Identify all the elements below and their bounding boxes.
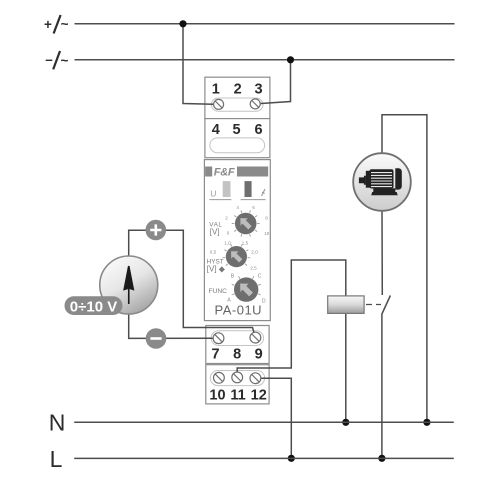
svg-text:0÷10 V: 0÷10 V bbox=[70, 298, 117, 315]
junction dot switch wire on L line bbox=[378, 455, 385, 462]
svg-text:6: 6 bbox=[254, 122, 262, 138]
svg-text:0: 0 bbox=[227, 231, 230, 236]
junction dot on -/~ line bbox=[287, 56, 294, 63]
screw terminal 7 bbox=[213, 333, 224, 344]
wire switch to L bbox=[381, 314, 383, 459]
wire from -/~ to terminal 3 bbox=[255, 60, 290, 104]
module terminal box 4-6 bbox=[205, 119, 270, 158]
svg-text:2: 2 bbox=[234, 82, 242, 98]
svg-text:2,0: 2,0 bbox=[251, 250, 258, 255]
screw terminal 1 bbox=[214, 99, 224, 109]
dashed link coil to contact bbox=[366, 304, 381, 306]
knob VAL bbox=[209, 205, 269, 237]
motor M circle bbox=[353, 153, 411, 211]
svg-text:[V]: [V] bbox=[210, 228, 220, 237]
svg-text:4: 4 bbox=[236, 205, 239, 210]
label 0÷10 V badge bbox=[65, 296, 123, 315]
svg-text:1,0: 1,0 bbox=[224, 241, 231, 246]
wire sensor minus to terminal 7 bbox=[129, 314, 219, 338]
module main body bbox=[204, 160, 270, 321]
screw terminal 10 bbox=[214, 372, 225, 383]
svg-text:~: ~ bbox=[61, 17, 69, 32]
svg-text:F&F: F&F bbox=[214, 167, 235, 179]
motor icon bbox=[359, 168, 402, 195]
junction dot terminal 12 wire on L line bbox=[288, 455, 295, 462]
junction dot motor wire on N line bbox=[423, 419, 430, 426]
svg-text:4: 4 bbox=[212, 122, 220, 138]
wire N line bbox=[74, 421, 454, 423]
svg-text:~: ~ bbox=[61, 53, 69, 68]
knob FUNC bbox=[209, 274, 266, 305]
svg-text:U: U bbox=[210, 188, 216, 198]
svg-text:5: 5 bbox=[233, 122, 241, 138]
knob HYST bbox=[207, 241, 259, 274]
svg-text:–: – bbox=[45, 52, 53, 67]
svg-text:C: C bbox=[258, 274, 262, 280]
node -/~ label bbox=[45, 51, 68, 69]
screw terminal 11 bbox=[232, 372, 243, 383]
svg-text:9: 9 bbox=[255, 346, 263, 362]
wire motor bottom to switch bbox=[381, 211, 383, 295]
switch contact blade bbox=[382, 296, 391, 315]
screw terminal 12 bbox=[250, 373, 261, 384]
node +/~ label bbox=[44, 15, 69, 34]
wire motor top loop to N bbox=[382, 115, 427, 423]
wire L line bbox=[74, 457, 454, 459]
wire terminal 11 to relay coil to N bbox=[237, 260, 346, 422]
svg-text:+: + bbox=[44, 17, 52, 32]
indicator U input bbox=[209, 181, 231, 200]
svg-text:D: D bbox=[262, 298, 266, 304]
svg-text:1: 1 bbox=[212, 82, 220, 98]
svg-text:8: 8 bbox=[265, 216, 268, 221]
svg-text:PA-01U: PA-01U bbox=[215, 303, 263, 318]
svg-text:8: 8 bbox=[233, 346, 241, 362]
screw terminal 3 bbox=[250, 99, 260, 109]
module terminal box 7-9 bbox=[206, 326, 269, 364]
svg-text:2,5: 2,5 bbox=[250, 266, 257, 271]
module terminal box 10-12 bbox=[206, 365, 269, 404]
F&F logo band bbox=[205, 167, 268, 179]
svg-text:B: B bbox=[231, 274, 235, 280]
screw terminal 9 bbox=[250, 332, 261, 343]
relay coil K1 bbox=[328, 296, 364, 314]
minus terminal marker bbox=[146, 328, 167, 349]
svg-text:10: 10 bbox=[209, 387, 225, 403]
svg-text:2: 2 bbox=[225, 216, 228, 221]
label window pill bbox=[210, 138, 265, 153]
wire terminal 12 to L bbox=[255, 378, 291, 458]
junction dot on +/~ line bbox=[179, 20, 186, 27]
svg-text:11: 11 bbox=[230, 387, 245, 403]
svg-text:FUNC: FUNC bbox=[209, 288, 228, 295]
indicator output bbox=[241, 181, 266, 200]
junction dot relay coil on N line bbox=[342, 419, 349, 426]
wire from +/~ to terminal 1 bbox=[183, 24, 219, 105]
svg-text:6: 6 bbox=[252, 205, 255, 210]
svg-text:N: N bbox=[49, 410, 66, 436]
wire sensor plus to terminal 9 bbox=[129, 230, 256, 337]
terminal slot 10-12 bbox=[210, 371, 264, 386]
wire -/~ supply line bbox=[75, 59, 455, 61]
svg-text:3: 3 bbox=[254, 82, 262, 98]
terminal slot 1-3 bbox=[211, 98, 263, 111]
svg-text:10: 10 bbox=[264, 231, 270, 236]
voltage source 0-10V circle bbox=[100, 256, 158, 314]
svg-text:12: 12 bbox=[251, 387, 267, 403]
svg-text:1,5: 1,5 bbox=[242, 241, 249, 246]
wire +/~ supply line bbox=[75, 23, 455, 25]
svg-text:L: L bbox=[50, 446, 63, 472]
plus terminal marker bbox=[146, 220, 167, 241]
voltage source arrow bbox=[124, 266, 133, 304]
terminal slot 7-9 bbox=[211, 331, 264, 346]
svg-text:[V] ◆: [V] ◆ bbox=[207, 264, 226, 273]
svg-text:7: 7 bbox=[212, 346, 220, 362]
svg-text:0,5: 0,5 bbox=[210, 250, 217, 255]
module terminal box 1-3 bbox=[205, 77, 270, 118]
